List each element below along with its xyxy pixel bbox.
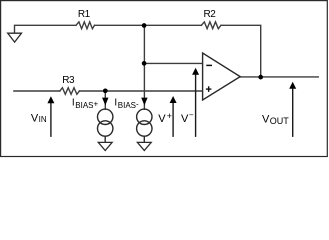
wire inverting input horizontal bbox=[144, 62, 202, 64]
svg-text:R1: R1 bbox=[78, 9, 91, 20]
ground (below IBIAS+) bbox=[98, 142, 112, 150]
border frame bbox=[1, 1, 328, 157]
node: top rail / feedback junction bbox=[142, 23, 147, 28]
ground (top left) bbox=[8, 33, 22, 42]
op-amp minus sign bbox=[206, 64, 212, 66]
wire R3 to op-amp + input bbox=[79, 90, 202, 92]
wire top rail from ground stub to R1 bbox=[15, 25, 77, 33]
ground (below IBIAS-) bbox=[137, 142, 151, 150]
svg-text:R3: R3 bbox=[62, 75, 75, 86]
wire inverting branch vertical (top rail down to IBIAS- source) bbox=[143, 25, 145, 109]
resistor R1 bbox=[76, 22, 95, 29]
VIN arrow bbox=[47, 96, 54, 137]
wire non-inverting row left segment bbox=[14, 90, 60, 92]
op-amp U1 bbox=[203, 53, 241, 100]
op-amp plus sign bbox=[206, 88, 212, 90]
node: output / feedback junction bbox=[258, 75, 263, 80]
current source IBIAS- bbox=[137, 109, 152, 142]
arrow into IBIAS+ (down) bbox=[102, 98, 108, 106]
node: non-inverting input / IBIAS+ junction bbox=[103, 88, 108, 93]
wire op-amp output bbox=[240, 76, 318, 78]
wire IBIAS+ drop from + row bbox=[104, 91, 106, 109]
wire R2 to feedback corner, down to output node bbox=[221, 25, 261, 77]
V+ arrow bbox=[170, 96, 177, 137]
svg-text:R2: R2 bbox=[204, 9, 217, 20]
node: inverting input junction bbox=[142, 61, 147, 66]
V- arrow bbox=[192, 68, 199, 137]
VOUT arrow bbox=[289, 82, 296, 137]
wire R1 to R2 bbox=[95, 24, 202, 26]
current source IBIAS+ bbox=[98, 109, 113, 142]
resistor R2 bbox=[201, 22, 221, 29]
resistor R3 bbox=[60, 88, 80, 95]
svg-text:VOUT: VOUT bbox=[262, 113, 289, 126]
arrow into IBIAS- (down) bbox=[141, 98, 147, 106]
